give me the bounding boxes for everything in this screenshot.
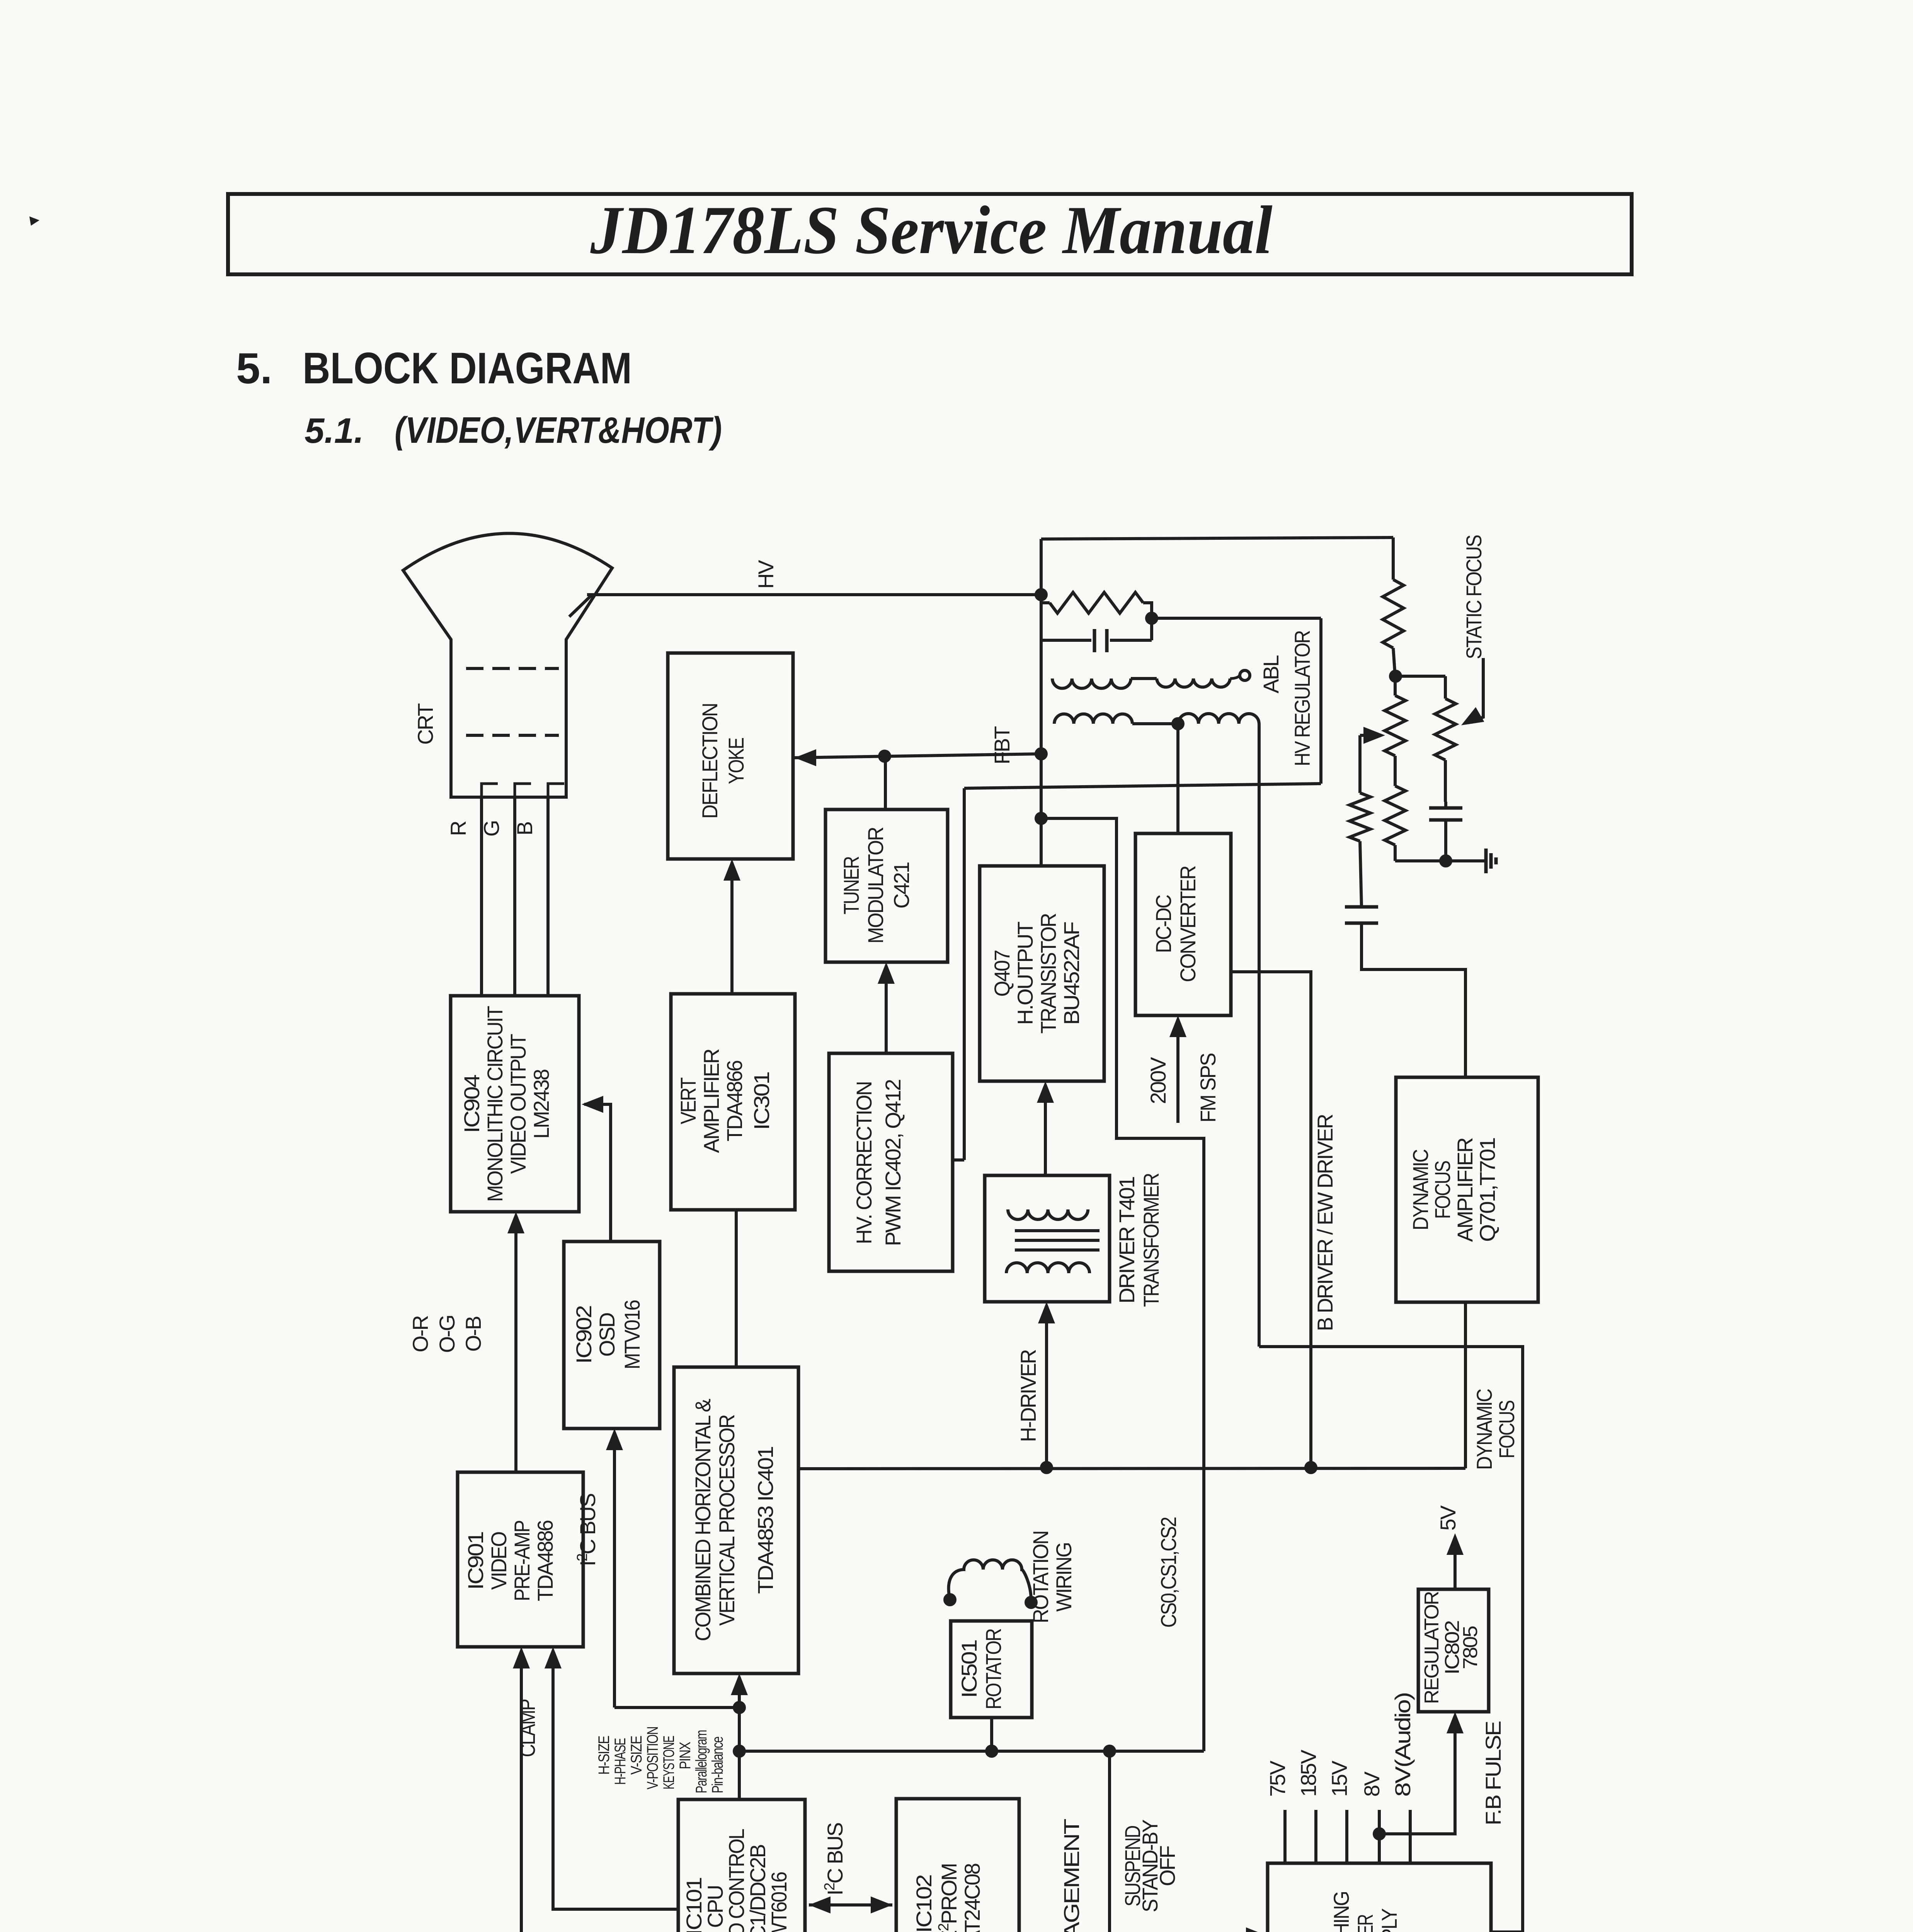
svg-text:PRE-AMP: PRE-AMP <box>510 1520 534 1601</box>
node suspend tap <box>1103 1745 1116 1758</box>
svg-text:8V: 8V <box>1360 1771 1384 1797</box>
svg-text:VIDEO OUTPUT: VIDEO OUTPUT <box>506 1034 530 1174</box>
suspend/power management wire <box>1110 1751 1264 1932</box>
svg-text:IC902: IC902 <box>572 1306 596 1364</box>
I2C bus arrow IC101-IC102 <box>809 1903 892 1906</box>
svg-text:COMBINED HORIZONTAL &: COMBINED HORIZONTAL & <box>691 1399 715 1641</box>
dynamic focus wire <box>1259 1347 1523 1932</box>
svg-text:7805: 7805 <box>1459 1626 1482 1669</box>
svg-text:B: B <box>512 822 537 835</box>
svg-text:DC-DC: DC-DC <box>1151 895 1176 953</box>
svg-text:IC901: IC901 <box>463 1532 488 1590</box>
transformer winding top <box>1008 1209 1088 1219</box>
tuner modulator box C421 <box>825 810 948 962</box>
CS0 CS1 CS2 bus wire <box>739 1750 1204 1753</box>
svg-text:VIDEO: VIDEO <box>487 1532 511 1590</box>
transformer core <box>1015 1229 1099 1232</box>
svg-text:(VIDEO,VERT&HORT): (VIDEO,VERT&HORT) <box>395 410 722 451</box>
node yoke wire on rail <box>1035 747 1048 760</box>
arrow 200V FM SPS into DC-DC <box>1176 1019 1179 1123</box>
arrow vert amp to yoke <box>730 862 734 994</box>
arrow into yoke <box>795 749 816 766</box>
svg-text:AMPLIFIER: AMPLIFIER <box>1453 1138 1477 1242</box>
svg-text:YOKE: YOKE <box>724 738 748 784</box>
resistor in wiper branch <box>1350 793 1370 841</box>
svg-text:LM2438: LM2438 <box>529 1070 553 1139</box>
svg-text:FOCUS: FOCUS <box>1494 1401 1519 1459</box>
wire B to video output <box>546 797 550 996</box>
DC-DC converter box <box>1135 833 1231 1015</box>
dynamic focus amplifier box <box>1396 1077 1538 1302</box>
deflection yoke box <box>668 653 793 859</box>
svg-text:BU4522AF: BU4522AF <box>1059 922 1084 1025</box>
CRT gun pins <box>482 784 498 797</box>
rotation coil <box>949 1560 1031 1600</box>
wire I2C to OSD branch <box>614 1706 739 1709</box>
svg-text:POWER: POWER <box>1353 1915 1377 1932</box>
svg-text:DDC1/DDC2B: DDC1/DDC2B <box>745 1845 770 1932</box>
vert amplifier box IC301 <box>671 994 795 1210</box>
regulator IC802 box <box>1418 1589 1489 1712</box>
svg-text:15V: 15V <box>1327 1760 1351 1797</box>
static focus pointer <box>1475 658 1483 720</box>
page header box <box>228 194 1632 274</box>
Q407 H-output transistor box <box>980 866 1104 1081</box>
svg-text:AMPLIFIER: AMPLIFIER <box>699 1049 723 1153</box>
node primary winding tap to DC-DC <box>1171 717 1185 730</box>
svg-text:AT24C08: AT24C08 <box>960 1864 984 1932</box>
svg-text:DYNAMIC: DYNAMIC <box>1472 1389 1496 1470</box>
combined H/V processor box IC401 <box>674 1367 798 1673</box>
svg-text:E2PROM: E2PROM <box>936 1864 961 1932</box>
svg-text:Q407: Q407 <box>990 951 1014 997</box>
FBT primary winding <box>1054 714 1132 724</box>
svg-text:CONVERTER: CONVERTER <box>1176 866 1200 982</box>
IC902 OSD box <box>564 1242 660 1429</box>
svg-text:Parallelogram: Parallelogram <box>693 1730 710 1793</box>
svg-text:200V: 200V <box>1146 1057 1170 1104</box>
wire tuner top to yoke wire <box>884 756 887 810</box>
svg-text:CS0,CS1,CS2: CS0,CS1,CS2 <box>1156 1517 1181 1628</box>
node B-driver tap <box>1304 1461 1317 1474</box>
svg-text:B DRIVER / EW DRIVER: B DRIVER / EW DRIVER <box>1313 1114 1337 1331</box>
svg-text:H-PHASE: H-PHASE <box>612 1738 629 1785</box>
collector loop wires <box>1041 818 1204 1751</box>
node H-driver tap <box>1040 1461 1053 1474</box>
svg-text:R: R <box>446 821 470 836</box>
svg-text:DYNAMIC: DYNAMIC <box>1408 1150 1433 1230</box>
node rotator tap <box>985 1745 998 1758</box>
wire OSD to IC904 <box>584 1104 611 1242</box>
svg-text:5V: 5V <box>1436 1505 1460 1531</box>
arrow I2C to OSD bottom <box>613 1432 616 1708</box>
svg-text:BLOCK DIAGRAM: BLOCK DIAGRAM <box>303 344 632 393</box>
svg-text:HV: HV <box>754 560 778 588</box>
svg-text:V-SIZE: V-SIZE <box>628 1736 645 1775</box>
svg-text:IC102: IC102 <box>912 1875 936 1932</box>
svg-text:I2C BUS: I2C BUS <box>574 1494 600 1566</box>
wire winding to dynamic focus line <box>1258 724 1261 1347</box>
svg-text:5.1.: 5.1. <box>305 411 364 451</box>
5V output arrow <box>1453 1537 1457 1589</box>
static focus potentiometer branch <box>1396 675 1445 678</box>
svg-text:IC301: IC301 <box>749 1072 774 1130</box>
node 8V tap to regulator <box>1373 1827 1386 1840</box>
IC901 video pre-amp box <box>458 1472 583 1647</box>
svg-text:H.OUTPUT: H.OUTPUT <box>1013 922 1037 1025</box>
svg-text:PINX: PINX <box>677 1742 694 1769</box>
coupling capacitor in wiper branch <box>1360 841 1362 907</box>
svg-text:V-POSITION: V-POSITION <box>644 1727 661 1789</box>
wire to HV regulator loop <box>1152 617 1321 620</box>
arrow IC101 to processor <box>738 1677 741 1799</box>
svg-text:O-B: O-B <box>461 1316 485 1352</box>
node ground junction <box>1439 854 1452 867</box>
wire winding tap to DC-DC <box>1176 724 1179 833</box>
ground symbol <box>1446 859 1486 862</box>
svg-text:TDA4866: TDA4866 <box>722 1061 747 1141</box>
transformer winding bottom <box>1006 1263 1089 1273</box>
svg-text:VERT: VERT <box>676 1078 700 1124</box>
svg-text:TDA4886: TDA4886 <box>533 1520 557 1601</box>
output voltage stubs <box>1283 1810 1287 1863</box>
FBT secondary winding <box>1052 679 1131 688</box>
svg-text:G: G <box>479 821 504 837</box>
HV wire from CRT anode to FBT rail <box>587 593 1041 596</box>
svg-text:OFF: OFF <box>1155 1846 1179 1886</box>
svg-text:75V: 75V <box>1265 1760 1290 1797</box>
svg-text:O-R: O-R <box>408 1316 432 1352</box>
wire G to video output <box>513 797 516 996</box>
wire R to video output <box>480 797 483 996</box>
node yoke wire / tuner branch <box>878 750 891 763</box>
svg-text:IC101: IC101 <box>682 1878 706 1932</box>
svg-text:KEYSTONE: KEYSTONE <box>660 1736 677 1789</box>
main horizontal bus wire <box>798 1468 1465 1469</box>
FBT left rail <box>1040 539 1043 866</box>
HV regulator loop right edge <box>1319 618 1322 784</box>
svg-text:STATIC FOCUS: STATIC FOCUS <box>1462 535 1486 659</box>
node rail branch to collector loop <box>1035 812 1048 825</box>
switching power supply box <box>1268 1863 1491 1932</box>
HV regulator potentiometer <box>1394 676 1397 696</box>
capacitor to ground (focus) <box>1429 806 1462 810</box>
svg-text:O-G: O-G <box>435 1316 459 1353</box>
node HV junction on rail <box>1035 588 1048 601</box>
series resistor below pot <box>1394 756 1397 786</box>
svg-text:8V(Audio): 8V(Audio) <box>1390 1693 1415 1797</box>
node coil right <box>1025 1596 1038 1609</box>
svg-text:MICRO CONTROL: MICRO CONTROL <box>724 1829 749 1932</box>
svg-text:TDA4853 IC401: TDA4853 IC401 <box>753 1447 778 1594</box>
svg-text:TRANSISTOR: TRANSISTOR <box>1036 913 1060 1034</box>
svg-text:TRANSFORMER: TRANSFORMER <box>1139 1173 1163 1307</box>
svg-text:FBT: FBT <box>990 726 1014 765</box>
svg-text:REGULATOR: REGULATOR <box>1421 1592 1443 1704</box>
node focus divider top <box>1389 670 1402 683</box>
svg-text:F.B FULSE: F.B FULSE <box>1481 1721 1505 1825</box>
resistor across FBT (damping) <box>1041 601 1050 604</box>
svg-text:POWER MANAGEMENT: POWER MANAGEMENT <box>1059 1819 1084 1932</box>
svg-text:Pin-balance: Pin-balance <box>709 1736 726 1793</box>
wire amp bottom to bus <box>1464 1302 1467 1468</box>
arrow T401 to Q407 <box>1044 1085 1047 1175</box>
svg-text:DRIVER T401: DRIVER T401 <box>1115 1177 1139 1304</box>
wire vert amp to processor <box>735 1210 738 1367</box>
bottom wire to ground node <box>1395 859 1446 862</box>
ABL terminal circle <box>1240 670 1250 680</box>
CRT shadow-mask dashed lines <box>466 667 559 670</box>
HV correction PWM box <box>829 1053 953 1271</box>
svg-text:WT6016: WT6016 <box>767 1872 791 1932</box>
svg-text:ROTATOR: ROTATOR <box>981 1629 1006 1709</box>
svg-text:H-SIZE: H-SIZE <box>596 1736 613 1775</box>
wire rotator to CS bus <box>990 1718 993 1751</box>
svg-text:CPU: CPU <box>703 1886 727 1928</box>
svg-text:TUNER: TUNER <box>839 857 863 914</box>
driver transformer T401 box <box>985 1175 1110 1302</box>
svg-text:FOCUS: FOCUS <box>1430 1161 1455 1219</box>
svg-text:IC501: IC501 <box>957 1640 981 1698</box>
FBT top wire <box>1041 537 1393 539</box>
arrow H-driver to T401 <box>1045 1306 1048 1468</box>
svg-text:FM SPS: FM SPS <box>1196 1053 1220 1122</box>
wire FBT rail to yoke <box>795 754 1041 758</box>
capacitor parallel to resistor <box>1041 639 1091 642</box>
svg-text:I2C BUS: I2C BUS <box>822 1823 847 1895</box>
node I2C branch <box>733 1701 746 1714</box>
svg-text:HV. CORRECTION: HV. CORRECTION <box>852 1082 876 1244</box>
resistor from top wire <box>1392 537 1395 580</box>
svg-text:IC904: IC904 <box>460 1075 484 1133</box>
B driver / EW driver wire <box>1231 972 1311 1468</box>
node CS bus branch <box>733 1745 746 1758</box>
node coil left <box>943 1593 956 1606</box>
svg-text:CLAMP: CLAMP <box>515 1699 540 1757</box>
svg-text:VERTICAL PROCESSOR: VERTICAL PROCESSOR <box>715 1415 739 1626</box>
wire wiper branch to dynamic focus amp <box>1362 923 1465 1077</box>
svg-text:MONOLITHIC CIRCUIT: MONOLITHIC CIRCUIT <box>483 1006 507 1202</box>
node resistor-capacitor junction <box>1145 612 1158 625</box>
svg-text:SWITCHING: SWITCHING <box>1329 1892 1353 1932</box>
collector loop left side <box>963 788 966 1160</box>
CRT tube outline <box>403 533 612 797</box>
svg-text:ROTATION: ROTATION <box>1028 1531 1053 1623</box>
svg-text:H-DRIVER: H-DRIVER <box>1016 1350 1040 1442</box>
svg-text:C421: C421 <box>889 862 914 909</box>
wire 8V to regulator <box>1379 1716 1455 1834</box>
svg-text:Q701,T701: Q701,T701 <box>1475 1138 1499 1242</box>
svg-text:CRT: CRT <box>413 704 437 745</box>
svg-text:OSD: OSD <box>595 1313 619 1357</box>
svg-text:JD178LS Service Manual: JD178LS Service Manual <box>590 192 1273 268</box>
svg-text:5.: 5. <box>236 344 272 393</box>
IC904 video output box <box>451 996 579 1212</box>
IC101 CPU box <box>678 1799 805 1932</box>
svg-text:MTV016: MTV016 <box>620 1300 644 1369</box>
stray scan mark <box>29 216 39 226</box>
svg-text:MODULATOR: MODULATOR <box>863 827 888 944</box>
arrow PWM to tuner bottom <box>885 966 888 1053</box>
svg-text:WIRING: WIRING <box>1052 1543 1076 1612</box>
svg-text:ABL: ABL <box>1259 655 1283 694</box>
arrow CLAMP into IC901 <box>553 1651 678 1909</box>
svg-text:PWM IC402, Q412: PWM IC402, Q412 <box>881 1080 905 1246</box>
CRT anode tick <box>569 595 592 617</box>
svg-text:SUPPLY: SUPPLY <box>1377 1908 1401 1932</box>
arrow RGB into IC901 <box>520 1651 523 1932</box>
IC501 rotator box <box>951 1621 1032 1718</box>
HV regulator loop bottom edge <box>964 784 1321 788</box>
svg-text:DEFLECTION: DEFLECTION <box>698 704 722 819</box>
svg-text:185V: 185V <box>1296 1749 1321 1797</box>
svg-text:HV REGULATOR: HV REGULATOR <box>1290 631 1314 766</box>
IC102 EEPROM box <box>896 1799 1019 1932</box>
arrow IC901 to IC904 <box>514 1216 517 1472</box>
HV reg pot wiper arrow <box>1363 727 1385 744</box>
